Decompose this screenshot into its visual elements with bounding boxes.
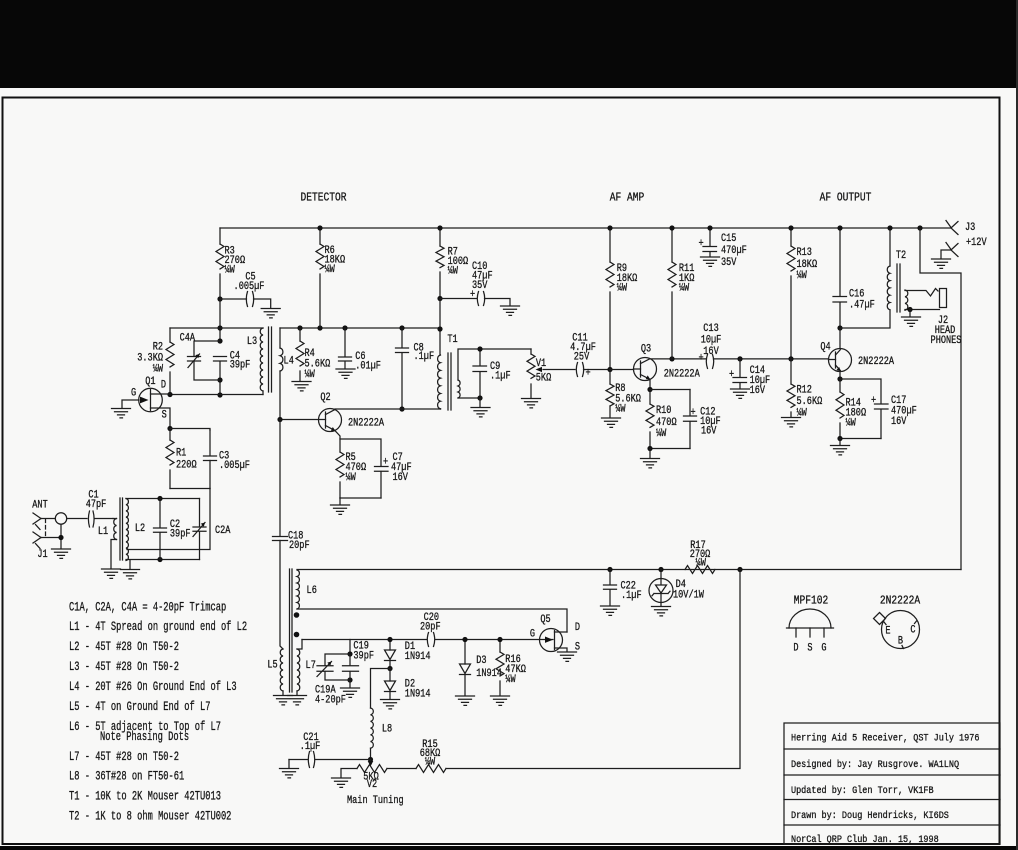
node L8 bottom [368, 757, 373, 762]
svg-text:D: D [793, 642, 798, 654]
ground at D3 [456, 696, 475, 705]
svg-text:L2: L2 [135, 522, 145, 534]
svg-text:V1: V1 [536, 357, 546, 369]
wire Q2 collector line [335, 408, 441, 410]
ground at C6 [336, 369, 355, 378]
transistor Q4 2N2222A [820, 341, 894, 372]
right edge dark line [1016, 0, 1018, 850]
top black band [0, 0, 1018, 88]
svg-text:+: + [586, 367, 591, 379]
ground at D4 [652, 607, 671, 616]
svg-text:4-20pF: 4-20pF [315, 693, 346, 705]
svg-text:J1: J1 [37, 548, 47, 560]
svg-text:Designed by: Jay Rusgrove. WA1: Designed by: Jay Rusgrove. WA1LNQ [791, 758, 959, 770]
svg-text:39pF: 39pF [353, 649, 374, 661]
ground at J1 [52, 549, 71, 558]
node R17 right [737, 567, 742, 572]
transistor Q2 2N2222A [319, 391, 385, 431]
transformer core L3/L4 [269, 327, 272, 392]
ground at R4 [292, 382, 311, 391]
transformer T2 core [897, 264, 900, 312]
node R3 bottom [217, 296, 222, 301]
svg-text:.1µF: .1µF [490, 370, 511, 382]
inductor L4 [280, 348, 283, 371]
bottom black band [0, 846, 1018, 850]
svg-text:.005µF: .005µF [219, 459, 250, 471]
node C6 top [342, 325, 347, 330]
potentiometer V2 wiper [370, 760, 372, 762]
svg-text:R10: R10 [656, 404, 672, 416]
svg-text:R13: R13 [797, 246, 813, 258]
node Q3 base [607, 367, 612, 372]
svg-text:¼W: ¼W [305, 368, 315, 380]
node tank top [217, 325, 222, 330]
transistor Q3 2N2222A [610, 343, 700, 381]
node +12V branch [917, 225, 922, 230]
svg-text:¼W: ¼W [617, 282, 627, 294]
trimcap C2A [199, 499, 201, 560]
wire L7 top to oscillator line [297, 640, 302, 650]
resistor R6 [319, 228, 321, 328]
transistor Q1 MPF102 [122, 375, 170, 428]
svg-text:V2: V2 [367, 778, 377, 790]
svg-text:G: G [131, 387, 136, 399]
svg-text:DETECTOR: DETECTOR [300, 192, 346, 205]
capacitor C19 [349, 654, 351, 680]
ground at L1 [102, 569, 121, 578]
svg-text:T2: T2 [896, 249, 906, 261]
trimcap C19A [325, 654, 350, 680]
node C19 top [347, 651, 352, 656]
svg-text:L5: L5 [267, 659, 277, 671]
resistor R10 [649, 390, 651, 449]
svg-text:2N2222A: 2N2222A [664, 368, 700, 380]
svg-text:10µF: 10µF [701, 334, 722, 346]
wire Q1 drain line to L3 bottom [170, 394, 263, 396]
node drain [167, 392, 172, 397]
svg-text:L5 - 4T on Ground End of L7: L5 - 4T on Ground End of L7 [69, 701, 210, 715]
wire R2 top to tank line [170, 327, 220, 329]
svg-text:+: + [383, 456, 388, 468]
svg-text:Q4: Q4 [820, 341, 830, 353]
svg-text:L4 - 20T #26 On Ground End of: L4 - 20T #26 On Ground End of L3 [69, 681, 237, 695]
node C15 top [707, 225, 712, 230]
node C16 top [837, 225, 842, 230]
svg-text:39pF: 39pF [230, 359, 251, 371]
node R11 top [669, 225, 674, 230]
svg-text:C2A: C2A [215, 524, 231, 536]
svg-text:L3 - 45T #28 On T50-2: L3 - 45T #28 On T50-2 [69, 661, 179, 675]
trimcap C4A branch box [194, 341, 220, 380]
wire Q4 collector [839, 328, 841, 349]
svg-text:¼W: ¼W [448, 265, 458, 277]
svg-text:2N2222A: 2N2222A [858, 355, 894, 367]
connector J3 pin 1 [946, 221, 958, 235]
svg-text:1N914: 1N914 [405, 688, 431, 700]
capacitor C21 [289, 759, 371, 761]
capacitor C13 [706, 354, 713, 368]
wire right bus down to tuning line [446, 570, 740, 769]
ground at R5 [339, 498, 341, 505]
svg-text:L6: L6 [307, 584, 317, 596]
svg-text:C15: C15 [721, 232, 737, 244]
ground at Q5 source [558, 652, 577, 661]
resistor R4 [299, 328, 301, 381]
svg-text:16V: 16V [393, 471, 409, 483]
wire R14 bottom to C17 bottom [840, 438, 881, 440]
svg-text:.1µF: .1µF [621, 589, 642, 601]
svg-text:Note Phasing Dots: Note Phasing Dots [100, 731, 189, 745]
ground at C22 [601, 606, 620, 615]
svg-text:PHONES: PHONES [931, 334, 962, 346]
transformer T2 primary [889, 228, 891, 266]
node Q1 source [167, 426, 172, 431]
dashed jack body J1 [45, 519, 47, 537]
resistor R13 [790, 228, 792, 359]
transformer core L1/L2 [120, 498, 123, 560]
svg-text:.01µF: .01µF [355, 360, 381, 372]
node T1 top [437, 326, 442, 331]
capacitor C5 [220, 299, 271, 308]
wire R7 node to T1 [439, 299, 441, 356]
phasing dot L7 [294, 632, 300, 638]
wire J1 sleeve to ground [41, 538, 61, 549]
capacitor C3 [209, 430, 211, 489]
resistor R17 [685, 566, 715, 574]
svg-text:20pF: 20pF [420, 620, 441, 632]
svg-text:ANT: ANT [32, 499, 48, 511]
resistor R12 [790, 359, 792, 417]
node Q4 emitter [837, 376, 842, 381]
ground at V1 [522, 399, 541, 408]
diode D2 1N914 [389, 669, 391, 682]
wire tank top to L3 [220, 327, 263, 329]
node R4 top [297, 325, 302, 330]
svg-text:L7: L7 [306, 659, 316, 671]
svg-text:16V: 16V [703, 345, 719, 357]
capacitor C12 [689, 390, 691, 449]
wire T1 secondary bottom to C9 [458, 397, 480, 399]
node D1 top [387, 637, 392, 642]
node tank top C2 [157, 496, 162, 501]
node C9 bottom [477, 395, 482, 400]
svg-text:¼W: ¼W [505, 673, 515, 685]
node Q2 base [277, 417, 282, 422]
node R9 top [607, 225, 612, 230]
svg-text:G: G [530, 627, 535, 639]
ground at L7 [288, 696, 307, 705]
svg-text:¼W: ¼W [846, 417, 856, 429]
transformer T1 core [448, 353, 451, 410]
svg-text:.1µF: .1µF [414, 350, 435, 362]
wire L6 top to right bus [297, 569, 961, 571]
svg-text:J3: J3 [965, 221, 975, 233]
svg-text:D: D [575, 621, 580, 633]
node C22 top [607, 567, 612, 572]
node C14 top [737, 356, 742, 361]
node C8 top [399, 325, 404, 330]
svg-text:Herring Aid 5 Receiver, QST Ju: Herring Aid 5 Receiver, QST July 1976 [791, 732, 979, 744]
svg-text:S: S [162, 409, 167, 421]
title block [784, 723, 1000, 845]
svg-text:+: + [699, 237, 704, 249]
wire J2 branch from rail down and right to long right-side bus [920, 228, 961, 570]
wire Q4 emitter [839, 372, 841, 380]
node C9 top [477, 346, 482, 351]
svg-text:G: G [821, 642, 826, 654]
wire R10 bottom to C12 bottom [650, 448, 690, 450]
svg-text:¼W: ¼W [425, 755, 435, 767]
zener diode D4 [649, 570, 704, 607]
svg-text:AF OUTPUT: AF OUTPUT [820, 192, 872, 205]
wire emitter node to C17 [840, 379, 881, 404]
svg-text:L8: L8 [382, 723, 392, 735]
svg-text:5KΩ: 5KΩ [536, 372, 552, 384]
node D4 top [658, 567, 663, 572]
svg-text:L1 - 4T Spread on ground end o: L1 - 4T Spread on ground end of L2 [69, 621, 247, 635]
svg-text:+: + [871, 394, 876, 406]
legend MPF102 package [787, 595, 834, 654]
wire R5 bottom to C7 bottom [340, 497, 381, 499]
ground at R10 [649, 449, 651, 459]
svg-text:Drawn by: Doug Hendricks, KI6D: Drawn by: Doug Hendricks, KI6DS [791, 809, 949, 821]
ground at V2 [332, 778, 351, 787]
transformer core L5 L6 L7 [290, 569, 293, 692]
svg-text:T1 - 10K to 2K Mouser 42TU013: T1 - 10K to 2K Mouser 42TU013 [69, 790, 221, 804]
svg-text:¼W: ¼W [615, 403, 625, 415]
diode D1 1N914 [389, 640, 391, 651]
ground at R14 [839, 439, 841, 446]
svg-text:L3: L3 [247, 335, 257, 347]
svg-text:L1: L1 [98, 525, 108, 537]
svg-text:C1A, C2A, C4A = 4-20pF Trimcap: C1A, C2A, C4A = 4-20pF Trimcap [69, 601, 226, 615]
resistor R2 [169, 328, 171, 395]
svg-text:16V: 16V [891, 415, 907, 427]
wire emitter node to C12 [650, 389, 690, 391]
svg-text:C4A: C4A [180, 332, 196, 344]
capacitor C15 [709, 228, 711, 246]
svg-text:MPF102: MPF102 [794, 595, 829, 608]
ground at C9 [479, 398, 481, 407]
resistor R5 [336, 452, 344, 477]
svg-text:¼W: ¼W [346, 471, 356, 483]
capacitor C9 [479, 349, 481, 398]
inductor L6 [297, 570, 299, 609]
headphone jack J2 [940, 289, 947, 308]
node T2 secondary bottom [907, 307, 912, 312]
wire J1 to C1 [41, 519, 87, 538]
svg-text:10V/1W: 10V/1W [673, 588, 704, 600]
node R10 bottom [647, 446, 652, 451]
connector J1 pin 2 [33, 532, 41, 549]
potentiometer V2 [357, 765, 387, 773]
node tank bottom [217, 392, 222, 397]
ground at T2 secondary [909, 310, 911, 317]
wire R3 node down detector tank [219, 299, 221, 395]
svg-text:25V: 25V [574, 351, 590, 363]
svg-text:.1µF: .1µF [300, 740, 321, 752]
svg-text:20pF: 20pF [289, 539, 310, 551]
svg-text:35V: 35V [472, 279, 488, 291]
svg-text:¼W: ¼W [797, 269, 807, 281]
node R13 top [788, 225, 793, 230]
capacitor C22 [609, 570, 611, 606]
svg-text:¼W: ¼W [153, 363, 163, 375]
capacitor C4 [214, 357, 227, 362]
svg-text:2N2222A: 2N2222A [880, 595, 921, 608]
svg-text:+: + [691, 406, 696, 418]
ground at D2 [381, 700, 400, 709]
svg-text:470µF: 470µF [721, 244, 747, 256]
svg-text:L8 - 36T#28 on FT50-61: L8 - 36T#28 on FT50-61 [69, 770, 184, 784]
wire Q2 emitter to R5 [335, 431, 340, 452]
svg-text:35V: 35V [721, 256, 737, 268]
svg-text:AF AMP: AF AMP [610, 192, 645, 205]
node Q3 emitter [647, 387, 652, 392]
wire emitter branch to C7 [340, 439, 381, 466]
svg-text:¼W: ¼W [225, 264, 235, 276]
wire T2 secondary bottom [905, 309, 940, 312]
resistor R1 [169, 429, 171, 489]
transformer T1 secondary [458, 380, 460, 398]
svg-text:¼W: ¼W [696, 557, 706, 569]
node R7 top [437, 225, 442, 230]
connector J3 pin 2 [941, 243, 958, 259]
svg-text:L7 - 45T #28 on T50-2: L7 - 45T #28 on T50-2 [69, 751, 179, 765]
capacitor C16 [839, 228, 841, 328]
capacitor C14 [739, 359, 741, 377]
node R16 top [497, 637, 502, 642]
wire R1 bottom to C3 bottom [170, 488, 210, 490]
wire Q3 collector line to Q4 base [650, 358, 829, 360]
phasing dot L6 [294, 612, 300, 618]
ground at J3 pin 2 [932, 259, 951, 268]
capacitor C7 [375, 467, 389, 472]
wire oscillator line [302, 639, 540, 641]
svg-text:C13: C13 [703, 322, 719, 334]
transformer T1 primary [438, 355, 441, 409]
resistor R8 [609, 370, 611, 418]
wire L2 tank top [126, 498, 200, 500]
node C19 bottom [347, 677, 352, 682]
component notes list [69, 601, 247, 824]
svg-text:Q1: Q1 [145, 375, 155, 387]
svg-text:47pF: 47pF [86, 498, 107, 510]
wire C3 node down to L2 tap [127, 489, 210, 550]
resistor R15 [416, 765, 446, 773]
svg-text:Q5: Q5 [540, 613, 550, 625]
svg-text:+: + [729, 368, 734, 380]
svg-text:E: E [885, 625, 890, 637]
svg-text:+12V: +12V [966, 236, 987, 248]
ground at C19 [349, 680, 351, 688]
inductor L3 [260, 328, 263, 391]
ground at R16 [491, 696, 510, 705]
ground at L5 [274, 696, 293, 705]
svg-text:Q2: Q2 [320, 391, 330, 403]
capacitor C2 [159, 499, 161, 560]
node C4A box bottom [217, 377, 222, 382]
ground at R8 [602, 418, 621, 427]
resistor R14 [839, 379, 841, 439]
node R6 bottom [317, 325, 322, 330]
node R14 bottom [837, 436, 842, 441]
wire T1 secondary top to V1 [458, 349, 531, 380]
svg-text:5.6KΩ: 5.6KΩ [797, 395, 823, 407]
node J1 sleeve [58, 535, 63, 540]
inductor L5 [280, 649, 283, 691]
svg-text:D: D [161, 379, 166, 391]
transistor Q5 MPF102 [530, 613, 580, 653]
node D3 top [462, 637, 467, 642]
wire C16 node to T2 bottom [840, 310, 890, 328]
svg-text:Updated by: Glen Torr, VK1FB: Updated by: Glen Torr, VK1FB [791, 784, 934, 796]
svg-text:¼W: ¼W [325, 263, 335, 275]
legend 2N2222A package [874, 595, 921, 649]
svg-text:C: C [910, 624, 915, 636]
svg-text:T1: T1 [447, 333, 457, 345]
node R7 bottom [437, 296, 442, 301]
capacitor C8 [401, 328, 403, 409]
capacitor C20 [427, 633, 434, 647]
svg-text:Q3: Q3 [641, 343, 651, 355]
resistor R9 [609, 228, 611, 370]
wire source node to C3 [170, 429, 210, 431]
capacitor C17 [875, 404, 889, 409]
ground at R12 [782, 418, 801, 427]
wire L2 tank bottom [126, 559, 200, 561]
connector J1 pin 1 [33, 513, 41, 530]
node C16 bottom [837, 325, 842, 330]
capacitor C1 [88, 511, 94, 527]
ground at C15 [709, 252, 711, 257]
inductor L7 [297, 649, 300, 691]
ground at C14 [739, 383, 741, 389]
node C4A box top [217, 338, 222, 343]
feedthrough circle [55, 513, 66, 524]
ground at C5 [261, 309, 280, 318]
diode D3 1N914 [464, 640, 466, 665]
wire L4 top line to T1 [280, 327, 440, 329]
wire Q3 emitter down [649, 380, 651, 390]
node R6 top [317, 225, 322, 230]
svg-text:.47µF: .47µF [849, 299, 875, 311]
svg-text:1N914: 1N914 [405, 650, 431, 662]
wire L2 bottom to ground [129, 560, 131, 569]
potentiometer V1 [530, 349, 532, 398]
resistor R3 [219, 228, 221, 299]
inductor L1 [113, 518, 117, 520]
wire top +12V supply rail [220, 227, 951, 229]
node C8 bottom [399, 406, 404, 411]
svg-text:¼W: ¼W [656, 427, 666, 439]
svg-text:16V: 16V [701, 425, 717, 437]
wire Q2 base [280, 419, 319, 421]
node Q4 base [788, 356, 793, 361]
svg-text:S: S [807, 642, 812, 654]
wire L4 bottom down through C18 to L5 [280, 420, 283, 650]
svg-text:S: S [575, 641, 580, 653]
resistor R16 [499, 640, 501, 696]
node T2 top [887, 225, 892, 230]
node D1 D2 junction [387, 666, 392, 671]
svg-text:R12: R12 [797, 384, 813, 396]
ground at Q1 gate [112, 409, 131, 418]
svg-text:T2 - 1K to 8 ohm Mouser 42TU00: T2 - 1K to 8 ohm Mouser 42TU002 [69, 810, 231, 824]
svg-text:16V: 16V [750, 384, 766, 396]
inductor L8 [371, 669, 391, 709]
svg-text:NorCal QRP Club Jan. 15, 1998: NorCal QRP Club Jan. 15, 1998 [791, 833, 939, 845]
